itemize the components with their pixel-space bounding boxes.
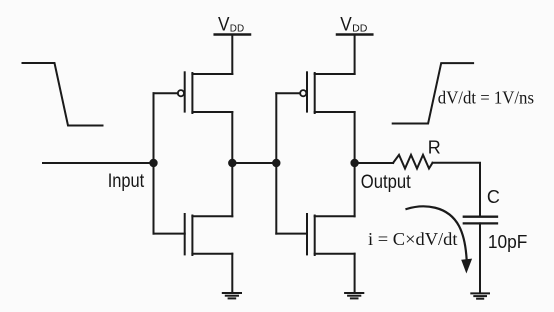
wire: M1 drain to output node 1 xyxy=(231,112,233,163)
ground symbol 2 xyxy=(345,293,363,298)
svg-text:i = C×dV/dt: i = C×dV/dt xyxy=(368,229,458,249)
wire: inverter1 output to inverter2 input xyxy=(232,162,276,164)
wire: output node to resistor xyxy=(355,162,394,164)
wire: M2 gate lead xyxy=(154,233,185,235)
wire: gate bus of inverter 2 xyxy=(275,93,277,233)
wire: VDD to M1 source xyxy=(231,35,233,75)
wire: gate bus of inverter 1 xyxy=(153,93,155,233)
wire: M4 source to ground xyxy=(354,254,356,293)
capacitor C1 plates xyxy=(464,217,497,224)
transistor M1 PMOS of inverter 1 xyxy=(178,72,233,113)
ground symbol 1 xyxy=(223,293,241,298)
transistor M2 NMOS of inverter 1 xyxy=(185,214,233,255)
svg-text:DD: DD xyxy=(230,24,244,35)
node A: input junction dot xyxy=(149,159,157,167)
wire: resistor to capacitor top xyxy=(433,163,481,216)
wire: M2 drain to output node 1 xyxy=(231,163,233,216)
wire: capacitor bottom to ground xyxy=(479,223,481,293)
ground symbol 3 xyxy=(471,293,489,298)
svg-text:dV/dt = 1V/ns: dV/dt = 1V/ns xyxy=(438,88,534,108)
svg-text:Input: Input xyxy=(108,171,145,192)
wire: M3 gate lead xyxy=(276,92,300,94)
wire: M2 source to ground xyxy=(231,254,233,293)
wire: M4 drain to output node xyxy=(354,163,356,216)
power VDD rail 2 xyxy=(337,14,372,35)
node B: inverter 1 output junction dot xyxy=(228,159,236,167)
node D: circuit output junction dot xyxy=(350,159,358,167)
wire: VDD to M3 source xyxy=(354,35,356,75)
power VDD rail 1 xyxy=(215,14,250,35)
transistor M3 PMOS of inverter 2 xyxy=(300,72,355,113)
wire: input lead xyxy=(43,162,154,164)
svg-text:R: R xyxy=(428,138,441,158)
wire: M4 gate lead xyxy=(276,233,307,235)
svg-text:Output: Output xyxy=(361,171,411,193)
wire: M3 drain to output node xyxy=(354,112,356,163)
resistor R1 zigzag xyxy=(393,155,432,169)
svg-text:DD: DD xyxy=(352,24,367,35)
svg-text:V: V xyxy=(340,14,352,35)
current arrow i (curved) xyxy=(407,206,473,273)
input falling-edge waveform xyxy=(23,63,103,126)
svg-text:C: C xyxy=(487,187,500,207)
node C: inverter 2 input junction dot xyxy=(272,159,280,167)
svg-text:V: V xyxy=(218,14,230,35)
output rising-edge waveform xyxy=(393,63,473,123)
wire: M1 gate lead xyxy=(154,92,178,94)
svg-text:10pF: 10pF xyxy=(488,232,528,252)
transistor M4 NMOS of inverter 2 xyxy=(307,214,355,255)
